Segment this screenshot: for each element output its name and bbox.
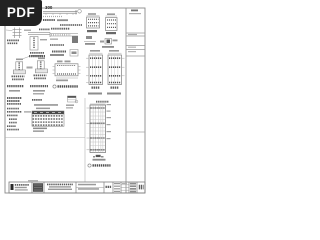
title column row text 3 (128, 51, 136, 52)
owner box text top (78, 184, 96, 186)
column detail D1 outline (89, 55, 103, 85)
title column divider y132 (126, 131, 145, 133)
wall elevation tie band 1 (91, 107, 106, 109)
footing F2 label 2 (34, 77, 46, 79)
column detail D1 caption (88, 93, 102, 95)
column detail D2 label (111, 86, 120, 88)
anchor detail mid text (86, 36, 92, 39)
caption 4 text (7, 85, 24, 87)
caption roof beam text (93, 164, 111, 166)
stub detail right text right (113, 40, 118, 42)
wall right side annotations (107, 104, 112, 139)
section S1 label (87, 30, 97, 32)
stub detail right body (105, 39, 112, 45)
note text row (52, 51, 66, 53)
column tie label line 2 (8, 42, 18, 44)
caption 2nd floor beam bubble (53, 85, 56, 88)
roof beam label (50, 39, 58, 40)
wall elevation tie band 4 (91, 149, 106, 151)
beam B-1 elevation bottom chord (43, 12, 77, 14)
section S1 outline (87, 17, 100, 28)
beam section J bottom rebar row (57, 73, 76, 75)
section S1 dim ticks (87, 15, 100, 17)
owner box text bottom (78, 188, 99, 190)
lintel top slab lines (28, 31, 50, 33)
wall elevation tie band 2 (91, 122, 106, 124)
caption 5 subtext 1 (33, 90, 45, 92)
footing F2 base line (35, 70, 47, 72)
footing F1 stub (16, 62, 23, 70)
schedule table frame (32, 111, 64, 126)
lintel stem outline (30, 37, 38, 51)
beam section J dim text b (65, 61, 71, 63)
panel divider vertical x85 (84, 98, 86, 182)
beam section J side ticks right (78, 67, 81, 74)
title column divider y36 (126, 35, 145, 37)
beam section J top rebar row (57, 65, 76, 67)
title column row text 2 (128, 47, 136, 48)
title strip divider x44 (43, 182, 45, 193)
wall elevation dim line (90, 103, 106, 105)
schedule table row 1 (33, 115, 64, 117)
beam B-1 hatch row (43, 16, 62, 18)
revision grid text specks (122, 183, 127, 184)
schedule table row 4 (33, 124, 64, 126)
wall elevation outline (90, 105, 106, 153)
column detail D1 label (92, 86, 101, 88)
section S1 rebar rows (88, 19, 99, 26)
notes list (7, 109, 22, 130)
schedule table row 3 (33, 121, 64, 123)
below wall sketch specks (93, 156, 95, 158)
column tie detail ladder (13, 28, 22, 39)
footing F2 top text (38, 58, 45, 60)
column detail D2 dim text (109, 50, 119, 52)
beam B-1 label a (43, 19, 55, 21)
schedule table header row (32, 111, 64, 114)
title column divider y45.5 (126, 45, 145, 47)
caption 2nd floor beam text (58, 85, 79, 87)
title strip frame (9, 182, 145, 193)
project title line 1 (47, 183, 73, 185)
seal emblem texture (34, 185, 42, 190)
owner box midline (76, 186, 104, 188)
footing F1 top text (16, 59, 23, 61)
section S2 dim ticks (106, 15, 118, 17)
right small text block line 1 (66, 105, 74, 106)
beam section J side ticks left (53, 67, 56, 74)
lintel heading (39, 28, 50, 30)
title column divider y56 (126, 55, 145, 57)
lintel stem dim marks (40, 39, 47, 40)
mini schedule icon frame (68, 96, 77, 102)
firm logo mark (11, 184, 14, 190)
beam B-1 stirrup ticks (46, 13, 73, 15)
seal emblem (33, 183, 43, 192)
column tie label line 1 (7, 39, 19, 41)
roof beam bottom chord (50, 35, 78, 37)
project title line 2 (49, 186, 71, 187)
title strip divider x121 (120, 182, 122, 193)
footing F1 label 1 (12, 75, 25, 77)
title column divider y49.5 (126, 49, 145, 51)
firm name line 1 (15, 184, 29, 186)
column detail D1 dim line (89, 52, 103, 54)
title column left line (125, 8, 127, 193)
title column row text 1 (128, 34, 137, 35)
caption 5 text (30, 85, 48, 87)
mini schedule icon header (68, 96, 77, 98)
mini schedule icon row line (68, 99, 77, 101)
schedule below text 2 (33, 130, 44, 132)
beam B-1 section bubble (78, 10, 82, 14)
schedule note short line (36, 108, 50, 110)
column detail D2 tie bands (109, 58, 121, 82)
PDF badge label (0, 0, 42, 26)
roof beam hatch (51, 34, 71, 36)
column detail D1 dim text (90, 50, 100, 52)
title strip divider x32 (31, 182, 33, 193)
wall elevation dim text (96, 101, 109, 103)
notes header line 1 (7, 97, 22, 99)
column detail D1 side ticks (86, 58, 89, 82)
stub detail right text left (100, 41, 104, 43)
note box bubble (70, 50, 78, 57)
caption 5 subtext 2 (33, 93, 44, 95)
sheet number blob (139, 185, 144, 190)
wall elevation footer text (93, 159, 106, 161)
note box bubble text (72, 52, 77, 55)
svg-text:300: 300 (45, 5, 53, 10)
footing F2 core (40, 62, 42, 69)
title strip divider x129 (128, 182, 130, 193)
title strip divider x113 (112, 182, 114, 193)
PDF badge overlay (0, 0, 42, 26)
title strip divider x76 (75, 182, 77, 193)
column detail D1 tie bands (90, 58, 102, 82)
footing F1 base line (13, 71, 25, 73)
notes header line 2 (7, 100, 20, 102)
section S2 rebar rows (107, 20, 116, 27)
notes item dash tail (24, 111, 31, 112)
schedule below text 1 (33, 128, 47, 130)
revision grid lines (121, 185, 129, 190)
column detail D2 outline (108, 55, 122, 85)
schedule note long line (34, 104, 58, 106)
stub detail right label (102, 46, 114, 48)
lintel label line 1 (30, 52, 44, 54)
caption roof beam bubble (88, 164, 91, 167)
schedule table header white specks (34, 112, 61, 114)
checked box rows (114, 183, 120, 192)
footing F1 core (18, 63, 20, 70)
schedule block intro text (32, 99, 42, 101)
stub detail right core (107, 40, 111, 44)
footing F2 stub (37, 61, 44, 69)
lintel label line 2 (31, 55, 42, 57)
column detail D2 dim line (108, 52, 122, 54)
date box text (106, 186, 112, 188)
beam section J text below (56, 80, 68, 82)
beam section J dim line below (56, 77, 78, 79)
firm name line 2 (15, 187, 27, 188)
caption 4 subtext (9, 90, 20, 92)
footing F2 base (35, 69, 47, 73)
roof beam top chord (50, 33, 78, 35)
section S2 dim text (107, 13, 115, 15)
title strip divider x104 (103, 182, 105, 193)
sheet background (0, 0, 149, 198)
panel divider horizontal y137 (5, 137, 85, 139)
section S1 dim text (88, 13, 96, 15)
lintel stem rebar core (33, 38, 35, 50)
footing mid dim text (27, 67, 33, 69)
roof beam label dark (50, 44, 64, 46)
leader note arrow A (22, 57, 29, 60)
section S2 label (106, 32, 116, 34)
leader note text A (29, 55, 45, 57)
title strip divider x137 (136, 182, 138, 193)
section bubble left of wall (75, 100, 78, 103)
section S2 outline (106, 18, 118, 31)
wall elevation light ties (91, 112, 106, 146)
column detail D2 side ticks (122, 58, 125, 76)
wall elevation tie band 3 (91, 137, 106, 139)
column detail D1 inner verticals (92, 55, 99, 85)
leader note text B (50, 54, 64, 56)
right small text block line 2 (66, 107, 73, 108)
column detail D2 inner verticals (111, 55, 118, 85)
beam B-1 label b (57, 19, 68, 21)
title column header text (131, 10, 138, 12)
footing F2 label 1 (34, 74, 47, 76)
firm name line 3 (15, 189, 28, 190)
notes header line 3 (7, 103, 21, 105)
title column header subtext (129, 13, 141, 14)
anchor detail label (85, 43, 95, 45)
roof beam end block (72, 36, 78, 43)
beam B-1 end tick (75, 10, 77, 15)
title column divider y33 (126, 32, 145, 34)
beam B-1 elevation top chord (43, 10, 77, 12)
page border frame (5, 8, 145, 193)
column tie leader arrow (6, 29, 13, 32)
wall elevation side ticks (87, 108, 91, 150)
schedule table row 2 (33, 118, 64, 120)
wall elevation inner verticals (93, 105, 103, 153)
scale box rows (130, 183, 136, 193)
beam section J outline (55, 64, 78, 76)
roof beam left tick (49, 33, 51, 38)
project title line 3 (48, 189, 72, 190)
wall elevation bottom mark (96, 155, 101, 157)
title strip upper tiny text (28, 180, 38, 181)
beam B-1 caption (60, 24, 82, 26)
footing F1 label 2 (12, 78, 24, 80)
footing F1 base (13, 70, 25, 74)
beam section J dim text a (57, 61, 63, 63)
anchor detail dim ticks (84, 41, 96, 43)
column detail D2 caption (107, 93, 121, 95)
roof beam heading (51, 28, 70, 30)
small dim text under badge (24, 30, 31, 31)
